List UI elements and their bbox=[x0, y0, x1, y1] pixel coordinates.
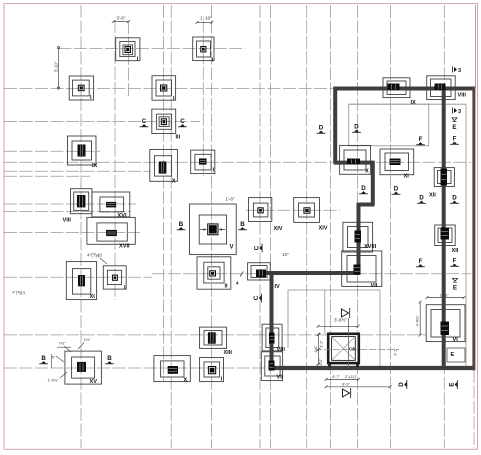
dimension line near XV 7half bbox=[57, 346, 71, 348]
svg-text:C8: C8 bbox=[349, 346, 355, 352]
grid line V-D x=171.2 bbox=[170, 5, 172, 448]
groundwater marker E upper bbox=[452, 118, 457, 131]
grid line H-10a y=277 left bbox=[4, 276, 152, 278]
wall W3 bbox=[334, 161, 374, 165]
pier column at footing VII right bbox=[354, 265, 361, 275]
pier column at footing VII bottom bbox=[269, 361, 275, 371]
grid line H-1 y=48.6 bbox=[59, 48, 246, 50]
grid line H-7b y=211.5 bbox=[4, 211, 130, 213]
footing I (grid B/1) bbox=[193, 37, 214, 64]
wall W8 bbox=[270, 271, 274, 368]
svg-text:1'-2": 1'-2" bbox=[320, 340, 324, 348]
svg-text:E: E bbox=[449, 382, 456, 386]
svg-text:F: F bbox=[419, 136, 423, 143]
pier column at footing IV bbox=[256, 270, 266, 278]
svg-text:D: D bbox=[361, 185, 366, 192]
footing I (grid B/2) bbox=[152, 76, 176, 102]
svg-text:C: C bbox=[142, 118, 147, 125]
svg-text:3'-1": 3'-1" bbox=[393, 348, 397, 356]
inner wall face room 1 rectangle bbox=[349, 104, 429, 146]
section marker F pair upper right bbox=[450, 136, 459, 145]
section marker B right of XV bbox=[105, 355, 114, 364]
grid line V-O x=475.4 above wall bbox=[474, 5, 476, 87]
dimension line below wall 2 bbox=[325, 385, 392, 388]
svg-text:3: 3 bbox=[458, 109, 461, 115]
svg-text:C: C bbox=[180, 118, 185, 125]
svg-text:XI: XI bbox=[404, 174, 410, 180]
footing IV bbox=[248, 263, 280, 290]
svg-text:D: D bbox=[354, 124, 359, 131]
svg-text:X: X bbox=[184, 378, 188, 384]
section marker C right of III bbox=[178, 118, 187, 127]
footing XI (right) bbox=[380, 149, 414, 180]
section marker C left of III bbox=[140, 118, 149, 127]
grid line V-C x=163.5 bbox=[163, 5, 165, 382]
footing XVI bbox=[92, 192, 130, 219]
footing I (grid B/3) bbox=[191, 150, 215, 174]
svg-text:X: X bbox=[172, 178, 176, 184]
wall W11 boundary (dark red) bbox=[472, 87, 475, 371]
svg-text:C: C bbox=[253, 245, 260, 250]
svg-text:1'-8": 1'-8" bbox=[225, 197, 235, 202]
svg-text:XV: XV bbox=[90, 379, 98, 385]
shaft diagonal brace 1 bbox=[332, 337, 356, 361]
grid line V-J x=330.5 bbox=[330, 5, 332, 448]
inner wall face line x=466 bbox=[465, 104, 467, 367]
svg-text:1'-0¾": 1'-0¾" bbox=[47, 378, 59, 383]
wall W1 top bbox=[334, 87, 476, 91]
svg-text:II: II bbox=[225, 284, 229, 290]
svg-text:D: D bbox=[319, 125, 324, 132]
grid line H-2 y=88.4 bbox=[4, 87, 334, 89]
svg-text:XIII: XIII bbox=[224, 350, 233, 356]
leader arrow 6in to XV bbox=[56, 356, 64, 362]
svg-text:XI: XI bbox=[90, 294, 96, 300]
pier column at footing VIII bottom bbox=[269, 333, 275, 344]
svg-text:VII: VII bbox=[371, 283, 378, 289]
grid line V-I x=306.7 bbox=[306, 5, 308, 448]
svg-text:3: 3 bbox=[458, 68, 461, 74]
footing VII (right) bbox=[342, 251, 382, 289]
footing II bbox=[197, 257, 231, 290]
inner wall face line x=288 bbox=[287, 290, 289, 348]
section marker D left of XII bbox=[417, 195, 426, 204]
pier column at footing XII upper bbox=[441, 169, 448, 186]
grid line V-K x=357.5 bbox=[357, 5, 359, 448]
pier column at footing IX top bbox=[388, 84, 400, 91]
grid line H-11 y=334.9 bbox=[4, 334, 426, 336]
grid line V-B x=115 bbox=[114, 20, 116, 300]
grid line H-9 y=232.5 bbox=[4, 232, 140, 234]
svg-text:4"(Typ): 4"(Typ) bbox=[87, 253, 102, 258]
grid line H-8 y=210.3 bbox=[246, 209, 340, 211]
svg-text:4"(Typ): 4"(Typ) bbox=[12, 290, 25, 295]
grid line H-6 y=176.3 bbox=[4, 175, 90, 177]
svg-text:2'-(11)": 2'-(11)" bbox=[345, 375, 358, 379]
svg-text:F: F bbox=[453, 258, 457, 265]
section marker D room left bbox=[317, 125, 326, 134]
wall W9 bottom bbox=[270, 366, 476, 370]
svg-text:XIV: XIV bbox=[319, 226, 328, 232]
section marker A below shaft bbox=[343, 388, 351, 398]
svg-text:6'-7": 6'-7" bbox=[332, 375, 340, 379]
dimension line left of footing I A/2 bbox=[58, 48, 60, 88]
svg-text:E: E bbox=[453, 284, 457, 291]
wall W7 bbox=[266, 271, 360, 275]
elevator shaft C8 outer wall bbox=[328, 334, 359, 363]
svg-text:10¾": 10¾" bbox=[440, 293, 449, 297]
svg-text:10": 10" bbox=[282, 252, 289, 257]
grid line H-5 y=162.3 bbox=[4, 161, 471, 163]
footing X (bottom) bbox=[154, 356, 190, 384]
svg-text:E: E bbox=[452, 124, 456, 131]
inner wall face line x=324.8 bbox=[324, 290, 326, 334]
svg-text:7½": 7½" bbox=[59, 341, 67, 346]
grid line H-3 y=121.5 bbox=[4, 121, 200, 123]
section marker D below X right bbox=[359, 185, 368, 194]
svg-text:IX: IX bbox=[92, 163, 98, 169]
wall W2 bbox=[333, 87, 337, 163]
svg-text:B: B bbox=[179, 221, 184, 228]
svg-text:B: B bbox=[107, 355, 112, 362]
footing X (left) bbox=[150, 150, 178, 185]
section marker C below IV bbox=[253, 294, 262, 303]
dimension line VI top small bbox=[426, 296, 466, 299]
svg-text:D: D bbox=[398, 382, 405, 387]
grid line V-F x=211.5 bbox=[211, 5, 213, 448]
leader arrow 1-0 to XV bbox=[60, 372, 67, 378]
inner wall face line room 1 top bbox=[349, 103, 466, 105]
svg-text:X: X bbox=[365, 169, 369, 175]
svg-text:VIII: VIII bbox=[63, 218, 72, 224]
section marker C above IV bbox=[253, 244, 262, 253]
dimension line above footing I B/1 bbox=[196, 21, 214, 24]
footing I (grid B/4) bbox=[103, 266, 126, 291]
shaft wall leg right to W9 bbox=[356, 363, 359, 367]
footing VIII (bottom) bbox=[262, 324, 285, 353]
groundwater marker E lower bbox=[452, 278, 457, 291]
footing XI (left) bbox=[66, 262, 96, 300]
svg-text:VI: VI bbox=[453, 337, 459, 343]
arrow left of V hatch bbox=[200, 229, 207, 231]
dimension line above shaft bbox=[317, 325, 360, 328]
grid line H-7 y=204 bbox=[4, 203, 136, 205]
section marker D right of XII bbox=[450, 195, 459, 204]
dimension line shaft left v1 bbox=[317, 333, 320, 366]
section marker B right of V bbox=[238, 221, 247, 230]
svg-text:B: B bbox=[41, 355, 46, 362]
svg-text:E: E bbox=[451, 352, 455, 358]
wall W5 bbox=[359, 203, 375, 207]
section marker E bottom bbox=[449, 380, 458, 389]
svg-text:4'-6¾": 4'-6¾" bbox=[415, 315, 419, 326]
section marker B left of XV bbox=[39, 355, 48, 364]
footing XVII bbox=[87, 217, 135, 249]
footing XIV (right) bbox=[294, 198, 328, 232]
wall W4 bbox=[371, 161, 375, 205]
grid line V-H x=270.5 bbox=[270, 5, 272, 448]
svg-text:XIV: XIV bbox=[274, 226, 283, 232]
footing XV bbox=[65, 351, 102, 385]
dim tick left of footing IV bbox=[240, 272, 244, 277]
footing I (grid A/1) bbox=[116, 38, 140, 63]
svg-text:3'-8": 3'-8" bbox=[116, 15, 126, 20]
svg-text:3'-10": 3'-10" bbox=[54, 61, 59, 72]
svg-text:XII: XII bbox=[429, 193, 436, 199]
grid line V-N x=474 below wall bbox=[473, 370, 475, 448]
svg-text:3'-6½": 3'-6½" bbox=[334, 317, 347, 323]
inner wall face line y=290 bbox=[288, 289, 380, 291]
dimension line below wall 1 bbox=[325, 378, 361, 381]
grid line V-B2 x=128.5 bbox=[128, 21, 130, 98]
svg-text:VIII: VIII bbox=[458, 93, 467, 99]
leader arrow 7half to XV corner bbox=[64, 346, 71, 352]
shaft left dim ticks bbox=[317, 333, 321, 336]
shaft centre line horizontal bbox=[315, 349, 399, 351]
section marker F pair lower right bbox=[450, 258, 459, 267]
grid line H-10 y=273.8 bbox=[152, 273, 471, 275]
shaft diagonal brace 2 bbox=[332, 337, 356, 361]
small box with E label bottom right bbox=[447, 348, 465, 362]
footing XII (upper) bbox=[429, 168, 454, 199]
footing X (right) bbox=[340, 145, 371, 174]
footing IX (left) bbox=[68, 136, 98, 169]
svg-text:C: C bbox=[253, 295, 260, 300]
footing VII (bottom) bbox=[261, 352, 283, 381]
svg-text:III: III bbox=[176, 135, 181, 141]
svg-text:XVI: XVI bbox=[118, 213, 127, 219]
footing VIII (top right) bbox=[427, 76, 467, 100]
svg-text:8'-9": 8'-9" bbox=[342, 382, 350, 386]
svg-text:1'-2": 1'-2" bbox=[319, 358, 323, 366]
footing III bbox=[152, 109, 181, 140]
svg-text:B: B bbox=[240, 221, 245, 228]
dimension line VI left vertical bbox=[419, 301, 422, 337]
dimension tick near XV bbox=[51, 354, 53, 368]
svg-text:IX: IX bbox=[411, 100, 417, 106]
svg-text:D: D bbox=[419, 195, 424, 202]
benchmark marker upper bbox=[453, 67, 462, 74]
section marker D below XI bbox=[392, 186, 401, 195]
grid line H-12 y=368 bbox=[4, 367, 270, 369]
section marker F pair upper left bbox=[416, 136, 425, 145]
arrow right of V hatch bbox=[219, 229, 226, 231]
section marker A above shaft bbox=[342, 308, 350, 318]
svg-text:4'-6": 4'-6" bbox=[314, 345, 318, 353]
svg-text:D: D bbox=[394, 186, 399, 193]
grid line V-M x=444.3 bbox=[443, 5, 445, 448]
shaft centre line vertical bbox=[347, 318, 349, 368]
pier column at footing X right bbox=[347, 159, 360, 165]
grid line V-G x=260 bbox=[259, 5, 261, 448]
svg-text:VII: VII bbox=[277, 375, 284, 381]
svg-text:6": 6" bbox=[52, 355, 56, 360]
footing XIII bbox=[200, 327, 233, 356]
svg-text:1½": 1½" bbox=[84, 337, 92, 342]
footing XVIII bbox=[343, 222, 377, 252]
footing XII (lower) bbox=[435, 225, 459, 254]
footing VI bbox=[426, 305, 465, 343]
svg-text:XVII: XVII bbox=[119, 244, 130, 250]
pier column at footing XVIII bbox=[355, 231, 362, 243]
shaft wall leg left to W9 bbox=[328, 363, 331, 367]
pier column at footing VI bbox=[441, 322, 450, 336]
svg-text:F: F bbox=[453, 136, 457, 143]
footing IX (top right) bbox=[383, 78, 416, 106]
elevator shaft inner face bbox=[332, 337, 356, 361]
leader arrow 4typ to XVI bbox=[100, 258, 107, 264]
grid line V-E x=203.3 bbox=[202, 20, 204, 176]
svg-text:V: V bbox=[230, 245, 234, 251]
wall W10 right bbox=[442, 89, 446, 369]
grid line H-4 y=151.2 bbox=[4, 150, 100, 152]
grid line V-A x=81 bbox=[80, 5, 82, 448]
footing V bbox=[190, 204, 237, 255]
svg-text:1'-10": 1'-10" bbox=[200, 16, 212, 21]
svg-text:D: D bbox=[452, 195, 457, 202]
section marker D bottom bbox=[398, 380, 407, 389]
footing I (grid A/2) bbox=[69, 76, 93, 101]
dimension line above footing I A/1 bbox=[112, 20, 130, 23]
section marker B left of V bbox=[177, 221, 186, 230]
inner wall face line x=380 bbox=[379, 290, 381, 367]
svg-text:F: F bbox=[419, 258, 423, 265]
leader arrow 1half to XV corner bbox=[78, 343, 84, 350]
pier column at footing XII lower bbox=[441, 228, 450, 240]
wall W6 bbox=[357, 203, 361, 273]
pier column at footing VIII top bbox=[435, 84, 446, 91]
footing VIII (left) bbox=[63, 189, 92, 224]
footing XIV (left) bbox=[249, 198, 283, 232]
section marker D room right bbox=[352, 124, 361, 133]
svg-text:XII: XII bbox=[452, 248, 459, 254]
grid line V-L x=390.5 bbox=[390, 5, 392, 448]
footing I (bottom) bbox=[200, 358, 224, 383]
benchmark marker lower bbox=[453, 108, 462, 115]
svg-text:XVIII: XVIII bbox=[364, 244, 377, 250]
svg-text:IV: IV bbox=[275, 284, 281, 290]
section marker F pair lower left bbox=[416, 258, 425, 267]
grid line H-6b y=171.3 bbox=[4, 170, 150, 172]
